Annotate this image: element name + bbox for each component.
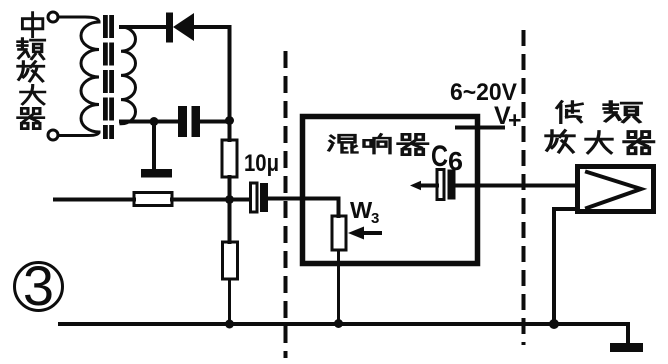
svg-text:+: + — [508, 107, 521, 133]
svg-text:3: 3 — [371, 210, 379, 227]
svg-text:10μ: 10μ — [244, 150, 279, 177]
svg-text:W: W — [350, 197, 373, 223]
svg-text:3: 3 — [23, 254, 54, 317]
